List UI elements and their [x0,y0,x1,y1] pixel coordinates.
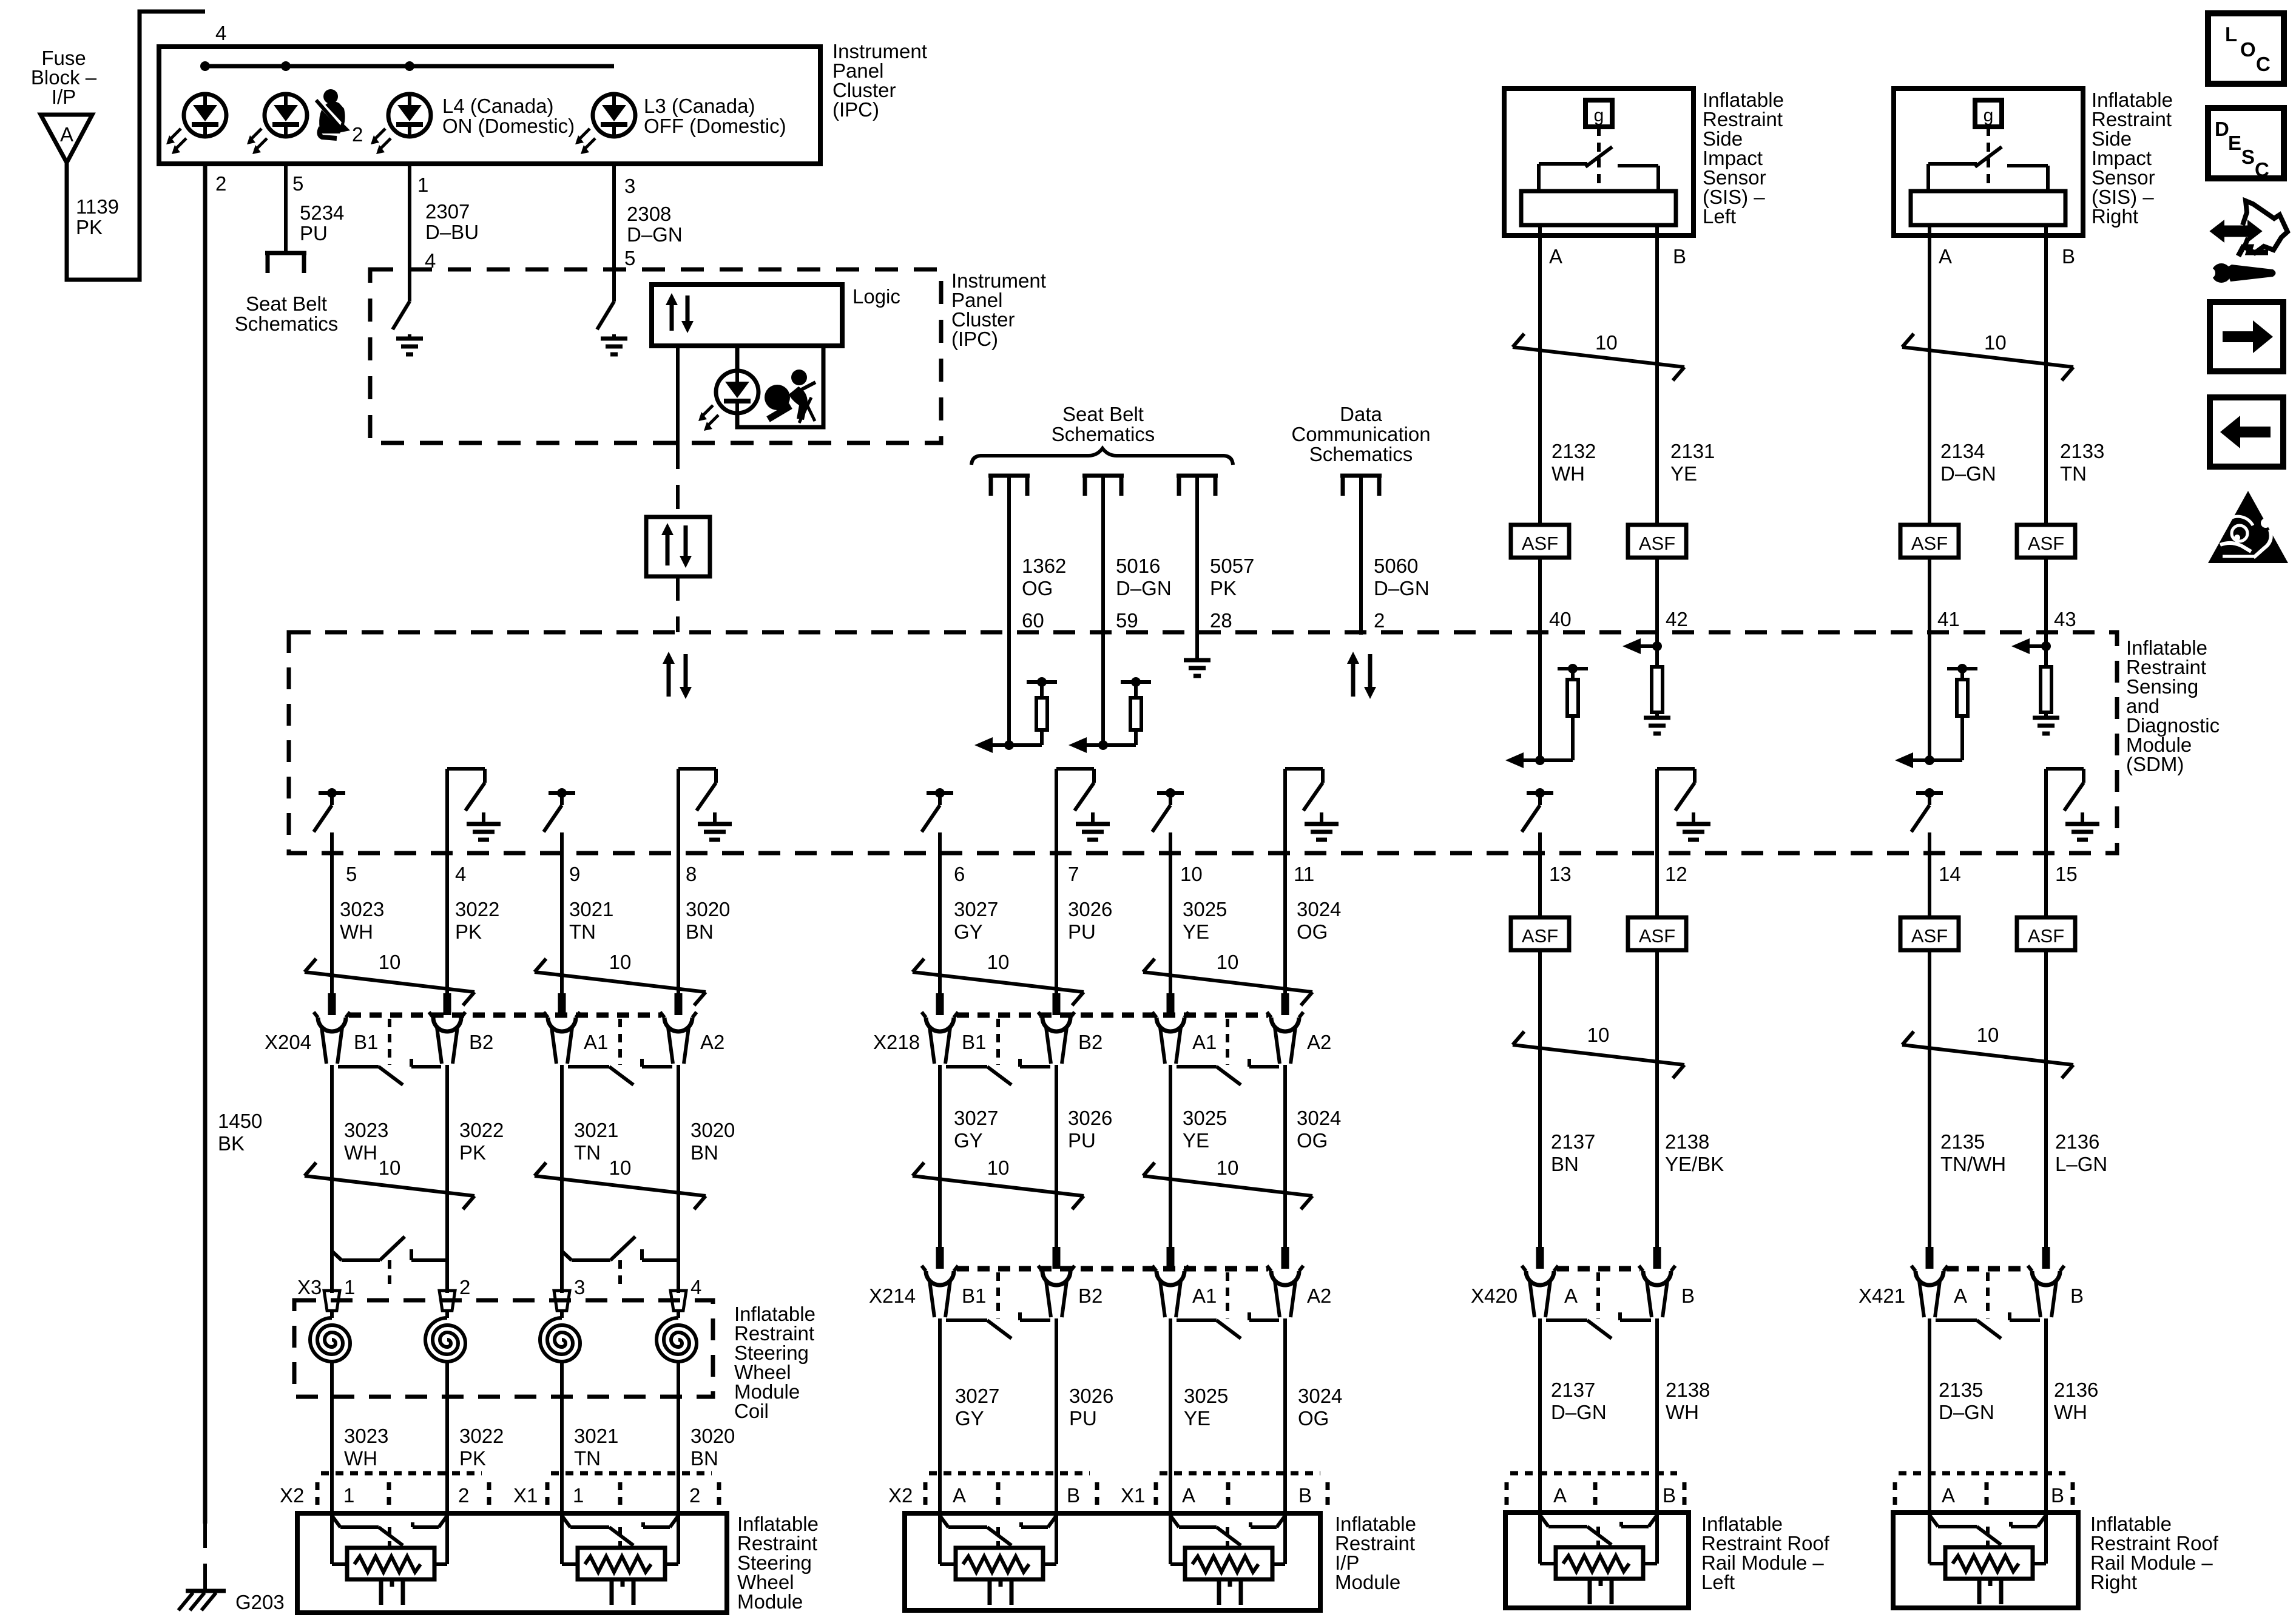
svg-text:B: B [2062,245,2075,268]
svg-text:I/P: I/P [52,86,76,108]
svg-text:X1: X1 [513,1484,538,1507]
svg-text:10: 10 [1587,1024,1610,1046]
svg-text:A: A [1564,1284,1578,1307]
return wire below switch x=3372 [2044,769,2048,917]
svg-text:OG: OG [1297,1129,1328,1152]
svg-text:YE: YE [1183,920,1209,943]
junction SIS A [1540,758,1573,762]
return wire below switch x=2731 [1655,769,1659,917]
svg-text:10: 10 [1180,863,1203,885]
svg-text:10: 10 [379,951,401,973]
roof rail right box [1893,1513,2078,1608]
svg-text:L: L [2225,23,2237,46]
ground SIS B [2033,716,2059,720]
wire below X218 x=2118 [1283,1065,1287,1247]
twist 10 lower (1549,1741) [913,1176,1084,1196]
svg-text:2136: 2136 [2054,1379,2098,1401]
svg-text:2136: 2136 [2055,1130,2099,1153]
resistor (pin 59) [1130,698,1141,730]
svg-text:PU: PU [300,222,328,245]
svg-text:WH: WH [344,1141,377,1164]
svg-text:ASF: ASF [2028,925,2064,947]
junction SIS B [1652,641,1662,651]
svg-text:A: A [60,123,73,146]
twist 10 left SIS pair [1513,347,1684,367]
svg-text:1: 1 [343,1484,354,1507]
svg-text:3027: 3027 [954,1107,998,1129]
wire 2131 YE lower [1655,558,1659,667]
svg-text:2132: 2132 [1551,440,1596,462]
svg-text:A1: A1 [584,1031,608,1053]
wire into coil x=926 [560,1311,564,1318]
svg-text:Coil: Coil [734,1400,769,1422]
junction at lamp 3 [405,61,414,71]
twist 10 lower (1929,2118) [1143,1176,1312,1196]
wire below ASF x=2538 [1538,950,1542,1250]
lamp airbag telltale [716,371,758,413]
wire below connector x=3372 [2044,1318,2048,1516]
svg-text:2307: 2307 [425,200,470,223]
svg-text:2131: 2131 [1670,440,1715,462]
svg-text:2133: 2133 [2060,440,2104,462]
DESC icon [2208,108,2284,178]
coil spiral x=926 [540,1318,580,1362]
svg-text:D–GN: D–GN [1939,1401,1994,1423]
SDM ground switch (wire x=2118) [1285,767,1323,771]
svg-text:4: 4 [690,1276,701,1298]
svg-text:3023: 3023 [340,898,384,920]
X204 shorting bar A1-A2 [568,1065,609,1068]
wire into coil x=1118 [677,1311,680,1318]
svg-text:BN: BN [1551,1153,1579,1175]
serial data box arrows [666,533,670,565]
logic up/down arrows [670,303,674,331]
twist 10 lower (547,737) [305,1176,474,1196]
connector X204 pin A1 [558,993,566,1015]
SDM deploy switch (wire x=3180) [1916,791,1943,795]
SDM ground switch (wire x=1741) [1056,767,1094,771]
svg-text:Left: Left [1703,205,1736,228]
SIS left element [1521,191,1676,225]
svg-text:GY: GY [955,1407,984,1430]
svg-text:3024: 3024 [1297,1107,1341,1129]
svg-text:1362: 1362 [1022,555,1066,577]
svg-text:5: 5 [292,172,303,195]
svg-text:TN/WH: TN/WH [1940,1153,2006,1175]
X214 shorting bar A1-A2 [1177,1318,1217,1322]
wire 2132 WH [1538,235,1542,525]
svg-text:A1: A1 [1192,1284,1217,1307]
X3 shorting bar 3-4 [562,1251,572,1260]
twist 10 (926,1118) [535,972,706,992]
arrow SIS B [1637,644,1657,648]
wire below X218 x=1929 [1169,1065,1172,1247]
X3 pin 3 [554,1291,570,1311]
SDM ground switch (wire x=1118) [678,767,716,771]
svg-text:X214: X214 [869,1284,916,1307]
twist 10 (2538,2731) [1513,1045,1684,1065]
svg-text:2138: 2138 [1666,1379,1710,1401]
svg-text:X421: X421 [1859,1284,1905,1307]
arrow-right icon [2210,302,2283,371]
SDM deploy switch (wire x=1929) [1157,791,1184,795]
svg-text:9: 9 [569,863,580,885]
svg-text:ASF: ASF [1522,925,1558,947]
arrow SIS B [2026,644,2046,648]
svg-text:5: 5 [624,247,635,269]
svg-text:10: 10 [1595,331,1618,354]
IPC dashed box [370,269,941,443]
g dashed link right [1987,127,1990,189]
svg-text:ASF: ASF [1639,925,1675,947]
svg-text:ON (Domestic): ON (Domestic) [442,115,575,137]
squib IP 2 [1170,1516,1179,1527]
logic box [652,285,842,346]
svg-text:ASF: ASF [2028,533,2064,554]
svg-text:3021: 3021 [569,898,613,920]
wire 1362 OG [1007,478,1011,745]
X204 shorting bar B1-B2 [338,1065,379,1068]
LOC icon [2208,13,2284,84]
connector X214 bus [957,1266,1268,1272]
svg-text:12: 12 [1665,863,1687,885]
wire 5057 PK [1195,478,1199,658]
svg-text:28: 28 [1210,609,1232,632]
SDM ground switch (wire x=737) [447,767,485,771]
svg-text:5: 5 [346,863,357,885]
svg-text:3025: 3025 [1183,1107,1227,1129]
svg-text:10: 10 [609,1156,632,1179]
svg-text:BN: BN [690,1447,718,1470]
svg-text:10: 10 [1977,1024,1999,1046]
svg-text:10: 10 [1984,331,2007,354]
roof left center dash [1593,1482,1598,1513]
svg-text:3027: 3027 [954,898,998,920]
svg-text:A2: A2 [1307,1284,1331,1307]
svg-text:3025: 3025 [1183,898,1227,920]
svg-text:D–GN: D–GN [1116,577,1172,599]
svg-text:B: B [1673,245,1686,268]
junction node 5016 [1103,743,1136,747]
connector X2 (IP) [929,1471,1090,1476]
wire below connector x=2731 [1655,1318,1659,1516]
twist 10 (1549,1741) [913,972,1084,992]
g-sensor box right [1975,100,2002,127]
SDM deploy switch (wire x=547) [319,791,345,795]
svg-text:3: 3 [624,175,635,197]
svg-text:ASF: ASF [1911,533,1948,554]
ASF filter 2132 [1511,525,1569,558]
squib IP 1 [940,1516,948,1527]
warning triangle icon [2208,491,2288,563]
svg-text:B: B [1298,1484,1312,1507]
serial data wire (dashed) [676,445,680,517]
brace [971,448,1233,465]
connector X420 pin A [1536,1247,1544,1269]
svg-text:3026: 3026 [1069,1385,1113,1407]
twist 10 (3180,3372) [1902,1045,2073,1065]
X2 center dash [387,1482,391,1513]
X420 shorting bar [1546,1318,1587,1322]
svg-text:B: B [1681,1284,1695,1307]
connector X218 bus [957,1013,1268,1018]
ASF filter 2133 [2017,525,2075,558]
seat belt icon [316,89,350,138]
deploy wire below switch x=926 [560,832,564,996]
svg-text:(IPC): (IPC) [832,98,879,121]
bracket 1362 [988,476,1030,496]
junction SIS A [1930,758,1962,762]
svg-text:Right: Right [2092,205,2138,228]
return wire below switch x=1741 [1055,769,1058,996]
svg-text:4: 4 [455,863,466,885]
squib roof right [1930,1515,1938,1527]
connector X420 bus [1557,1266,1640,1272]
wire below coil x=547 [330,1362,334,1516]
connector X214 pin B2 [1053,1247,1061,1269]
svg-text:X2: X2 [888,1484,913,1507]
pullup T-bar (pin 60) [1027,680,1057,684]
svg-text:2: 2 [689,1484,700,1507]
svg-text:YE/BK: YE/BK [1665,1153,1724,1175]
ground G203 [203,1578,207,1589]
svg-text:ASF: ASF [1522,533,1558,554]
svg-text:D–GN: D–GN [1551,1401,1607,1423]
svg-text:7: 7 [1068,863,1079,885]
switch lamp L3 driver [597,302,614,329]
bracket 5060 [1340,476,1382,496]
twist 10 (547,737) [305,972,474,992]
svg-text:A: A [1942,1484,1955,1507]
squib roof left [1540,1515,1548,1527]
arrow SIS A [1909,758,1930,762]
SIS right contact [1928,162,1977,166]
svg-text:BK: BK [218,1132,245,1155]
svg-text:WH: WH [2054,1401,2087,1423]
SIS left pigtails [1538,225,1542,235]
deploy wire below switch x=2538 [1538,832,1542,917]
svg-text:A: A [953,1484,966,1507]
svg-text:10: 10 [1217,1156,1239,1179]
connector X421 pin A [1926,1247,1934,1269]
ASF filter 2131 [1628,525,1686,558]
squib passenger side coil [562,1516,570,1527]
svg-text:PK: PK [455,920,482,943]
wire below ASF x=3180 [1928,950,1931,1250]
g dashed link left [1597,127,1601,189]
svg-text:4: 4 [215,22,226,44]
serial data arrows at SDM [667,661,671,697]
serial data box [646,517,710,576]
wire below ASF x=3372 [2044,950,2048,1250]
coil spiral x=547 [310,1318,350,1362]
svg-text:2308: 2308 [627,203,671,225]
wire 1450 BK (left vertical run) [203,164,208,1524]
svg-text:TN: TN [574,1447,601,1470]
connector X214 pin A1 [1167,1247,1175,1269]
connector X204 pin B2 [444,993,451,1015]
X1 center dash [618,1482,623,1513]
svg-text:10: 10 [609,951,632,973]
resistor SIS A [1567,680,1578,716]
connector X421 pin B [2042,1247,2050,1269]
svg-text:10: 10 [1217,951,1239,973]
connector X218 pin B2 [1053,993,1061,1015]
coil spiral x=1118 [657,1318,697,1362]
connector X1 (IP) [1160,1471,1320,1476]
svg-text:E: E [2228,132,2241,154]
svg-text:Schematics: Schematics [235,312,339,335]
connector roof left [1510,1471,1677,1476]
svg-text:A: A [1954,1284,1967,1307]
svg-text:Right: Right [2090,1571,2137,1593]
svg-text:59: 59 [1116,609,1138,632]
svg-text:D–BU: D–BU [425,221,479,243]
wire 2132 WH lower [1538,558,1542,760]
resistor SIS B [2041,667,2051,712]
svg-text:L3 (Canada): L3 (Canada) [644,95,755,117]
svg-text:15: 15 [2055,863,2078,885]
svg-text:2135: 2135 [1940,1130,1985,1153]
wire 2134 D-GN [1928,235,1931,525]
roof rail left box [1505,1513,1689,1608]
svg-text:A1: A1 [1192,1031,1217,1053]
resistor (pin 60) [1036,698,1047,730]
deploy wire below switch x=1549 [938,832,942,996]
svg-text:2: 2 [215,172,226,195]
svg-text:BN: BN [690,1141,718,1164]
deploy wire below switch x=547 [330,832,334,996]
connector X214 pin A2 [1281,1247,1289,1269]
wire below X204 x=547 [330,1065,334,1293]
bracket 5016 [1082,476,1124,496]
X1 IP center dash [1226,1482,1231,1513]
svg-text:B1: B1 [962,1284,986,1307]
svg-text:40: 40 [1549,608,1572,630]
svg-text:S: S [2241,146,2255,168]
SDM deploy switch (wire x=2538) [1527,791,1553,795]
svg-text:60: 60 [1022,609,1044,632]
wire 1450 BK dashed tail [203,1524,207,1578]
airbag telltale sub-box [737,346,823,427]
connector X204 bus [349,1013,661,1018]
svg-text:OG: OG [1022,577,1053,599]
svg-text:3026: 3026 [1068,1107,1112,1129]
svg-text:TN: TN [574,1141,601,1164]
ASF filter lower x=3180 [1900,917,1959,950]
X214 shorting bar B1-B2 [946,1318,987,1322]
svg-text:X3: X3 [297,1276,322,1298]
svg-text:OFF (Domestic): OFF (Domestic) [644,115,786,137]
svg-text:B: B [1067,1484,1080,1507]
svg-text:3021: 3021 [574,1425,618,1447]
svg-text:WH: WH [1551,462,1585,485]
svg-text:C: C [2255,158,2269,181]
svg-text:GY: GY [954,920,983,943]
svg-text:OG: OG [1297,920,1328,943]
SIS right pigtails [1928,225,1931,235]
svg-text:Module: Module [737,1590,803,1613]
svg-text:g: g [1984,106,1994,126]
svg-text:L–GN: L–GN [2055,1153,2107,1175]
junction node 1362 [1009,743,1042,747]
lamp L3 [593,94,635,137]
SIS left box [1504,89,1693,235]
connector X218 pin A2 [1281,993,1289,1015]
wire below connector x=3180 [1928,1318,1931,1516]
svg-text:X204: X204 [265,1031,311,1053]
junction at lamp 1 [200,61,210,71]
svg-text:5057: 5057 [1210,555,1254,577]
wire 2133 TN lower [2044,558,2048,667]
wire below connector x=1549 [938,1318,942,1516]
X3 pin 4 [670,1291,686,1311]
X3 pin 1 [324,1291,340,1311]
svg-text:A2: A2 [1307,1031,1331,1053]
arrow-left icon [2210,397,2283,467]
connector X218 pin B1 [936,993,944,1015]
svg-text:TN: TN [2060,462,2087,485]
svg-text:Logic: Logic [853,285,900,308]
svg-text:X218: X218 [873,1031,920,1053]
svg-text:2: 2 [458,1484,469,1507]
SDM ground switch (wire x=2731) [1657,767,1695,771]
svg-text:L4 (Canada): L4 (Canada) [442,95,553,117]
airbag icon [765,370,815,423]
ASF filter lower x=2538 [1511,917,1569,950]
instrument panel cluster box [159,47,820,164]
svg-text:PK: PK [1210,577,1237,599]
wire 2133 TN [2044,235,2048,525]
svg-text:3022: 3022 [455,898,499,920]
wire below connector x=1929 [1169,1318,1172,1516]
wire 2131 YE [1655,235,1659,525]
svg-text:10: 10 [987,1156,1010,1179]
svg-text:A2: A2 [700,1031,724,1053]
svg-text:B: B [2051,1484,2064,1507]
arrow to logic 5016 [1083,743,1103,747]
svg-text:X420: X420 [1471,1284,1518,1307]
switch lamp L4 driver [393,302,410,329]
return wire below switch x=1118 [677,769,680,996]
wire below X218 x=1549 [938,1065,942,1247]
off-page bracket seat belt [265,253,306,273]
connector X420 pin B [1653,1247,1661,1269]
wire below ASF x=2731 [1655,950,1659,1250]
svg-text:1139: 1139 [76,195,119,218]
svg-text:13: 13 [1549,863,1572,885]
svg-text:A: A [1182,1484,1195,1507]
coil spiral x=737 [425,1318,465,1362]
svg-text:C: C [2256,53,2271,75]
svg-text:2: 2 [352,123,363,146]
g-sensor box left [1585,100,1612,127]
svg-text:ASF: ASF [1911,925,1948,947]
wire below coil x=737 [445,1362,449,1516]
connector X421 bus [1947,1266,2029,1272]
svg-text:5234: 5234 [300,201,344,224]
return wire below switch x=2118 [1283,769,1287,996]
svg-text:10: 10 [379,1156,401,1179]
X3 shorting bar 1-2 [332,1251,342,1260]
svg-text:(IPC): (IPC) [951,328,998,350]
svg-text:X2: X2 [280,1484,304,1507]
svg-text:3020: 3020 [690,1425,735,1447]
svg-text:WH: WH [1666,1401,1699,1423]
serial data wire (dashed) 2 [676,576,680,632]
bracket 5057 [1177,476,1218,496]
svg-text:3020: 3020 [690,1119,735,1141]
